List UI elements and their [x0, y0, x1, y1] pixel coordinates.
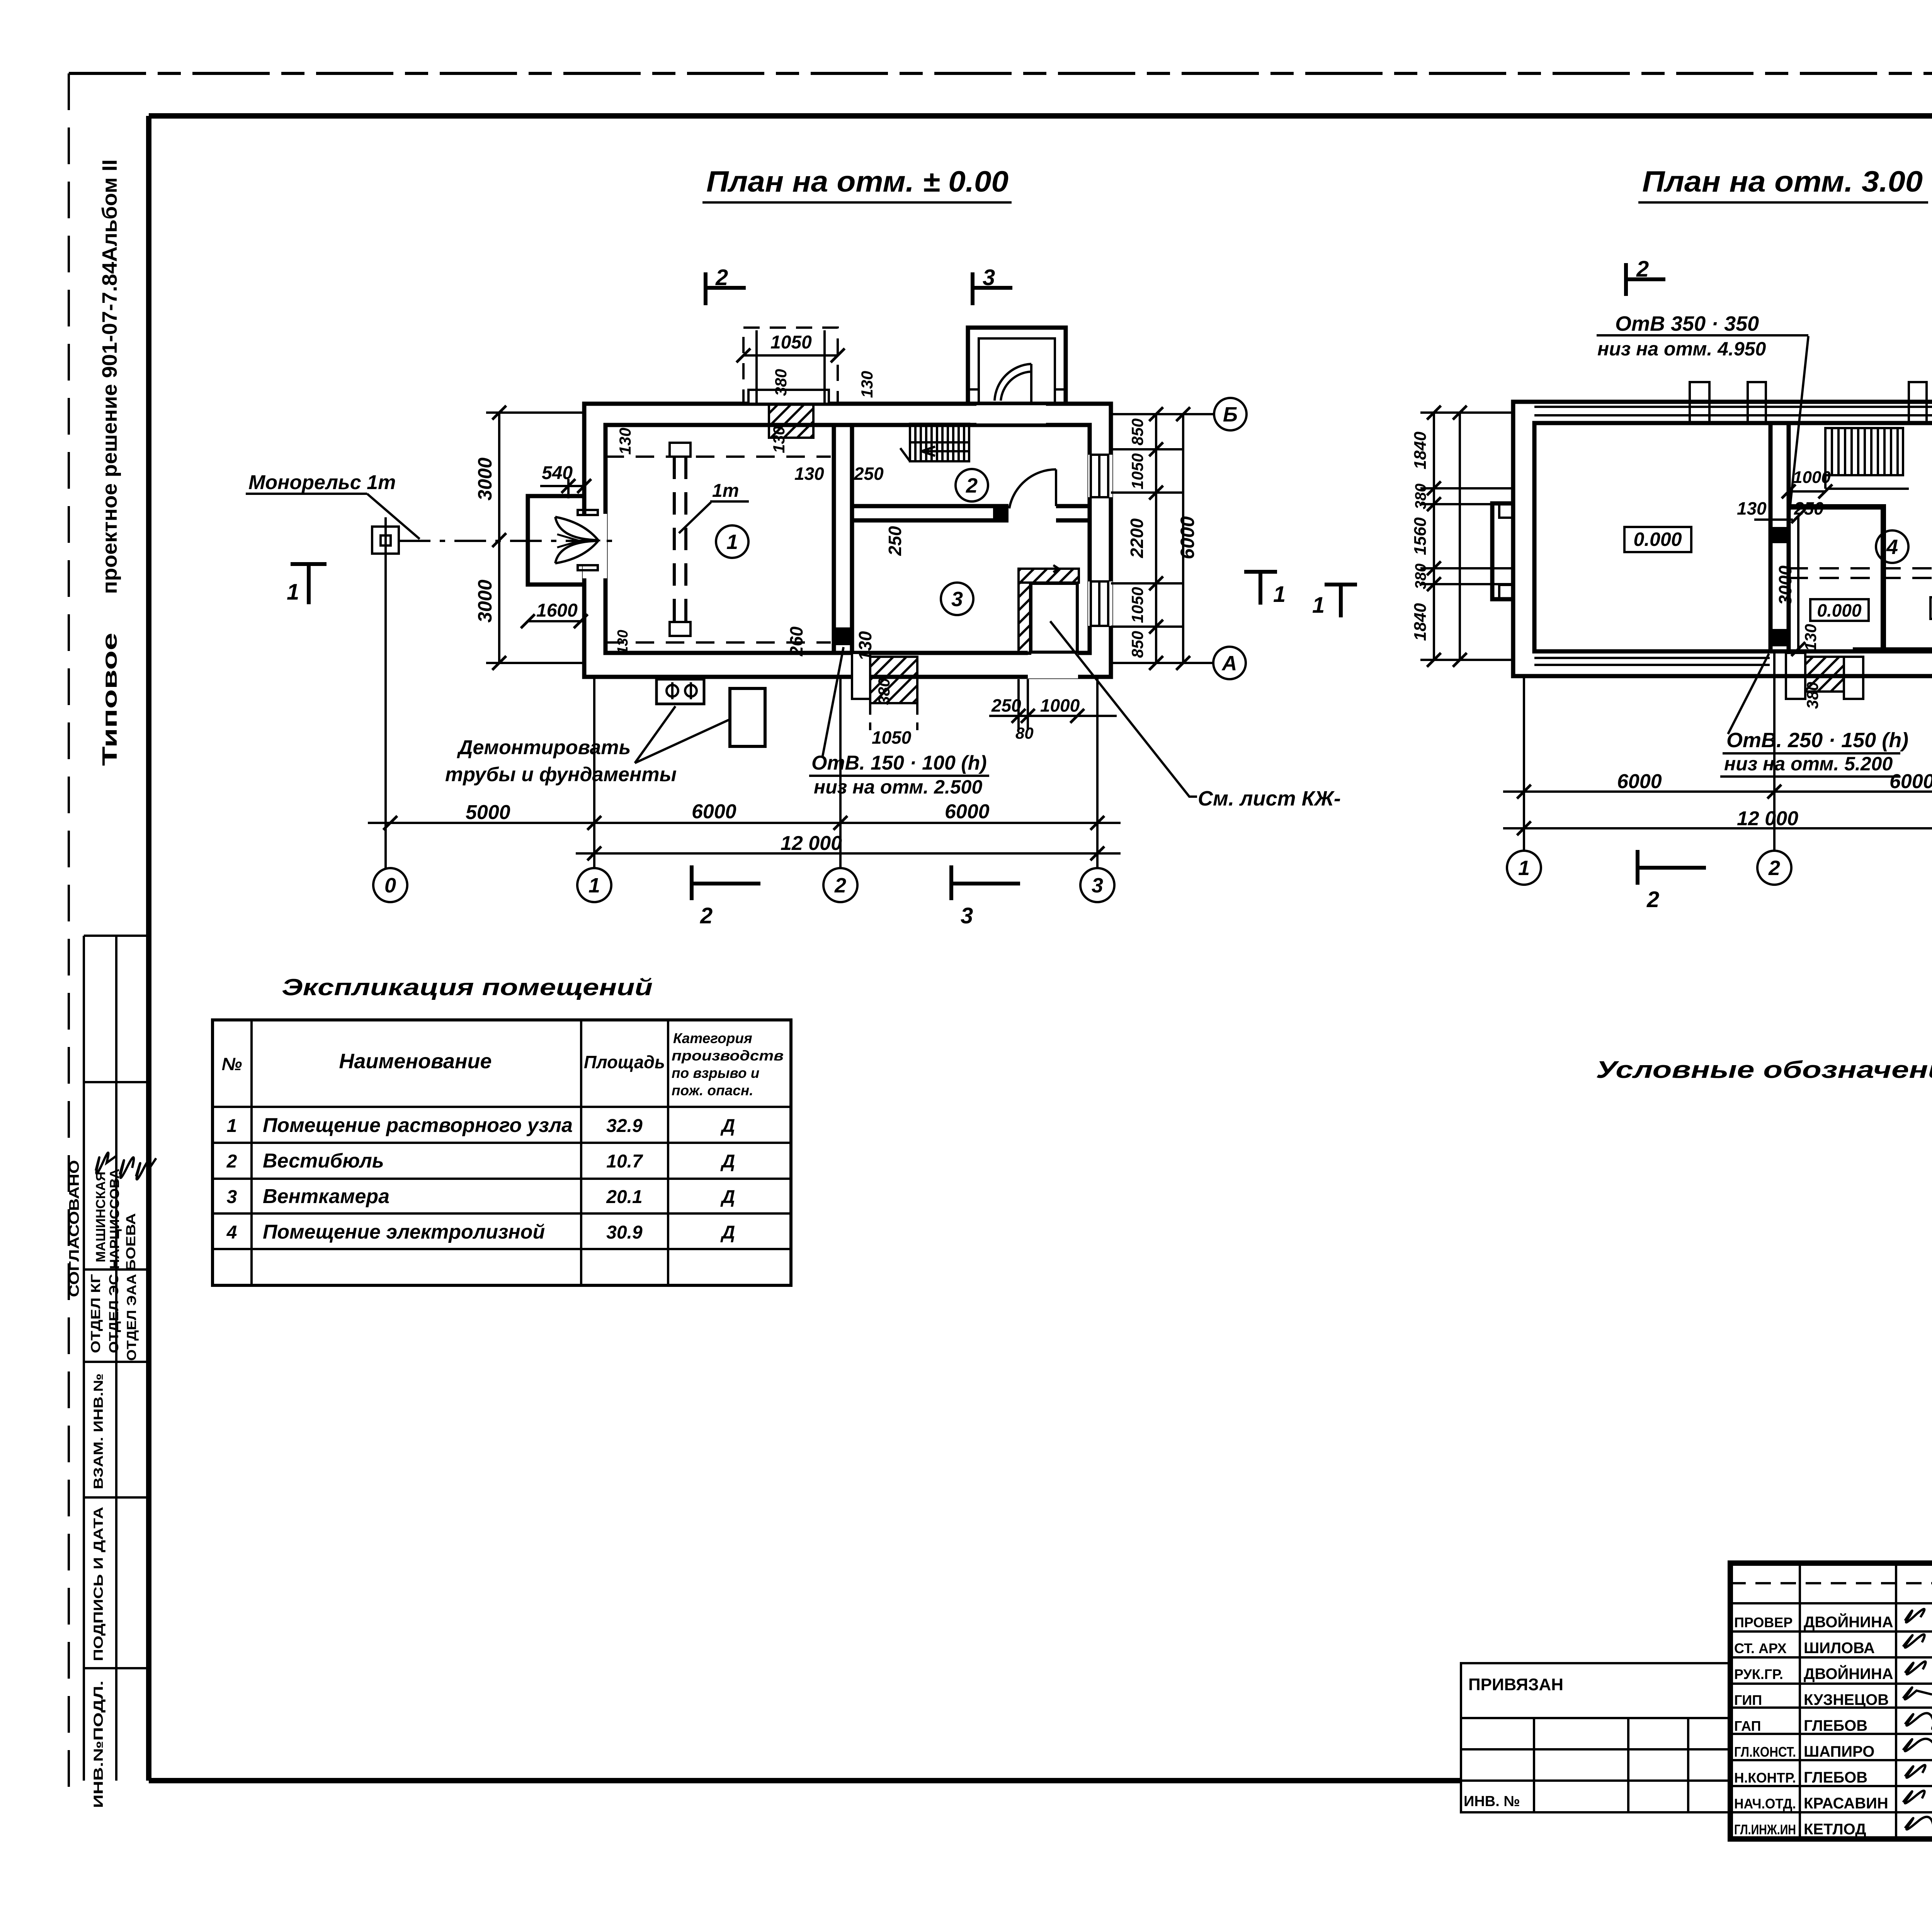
svg-text:380: 380: [772, 369, 790, 396]
svg-text:проектное решение 901-07-7.84: проектное решение 901-07-7.84Альбом II: [98, 160, 121, 594]
svg-text:Д: Д: [720, 1116, 735, 1136]
svg-text:Вестибюль: Вестибюль: [263, 1150, 384, 1172]
svg-text:1050: 1050: [1128, 587, 1146, 623]
svg-text:30.9: 30.9: [606, 1222, 643, 1243]
svg-text:130: 130: [858, 371, 876, 398]
svg-text:Монорельс 1т: Монорельс 1т: [248, 471, 396, 494]
svg-text:4: 4: [1886, 535, 1898, 559]
svg-text:0.000: 0.000: [1633, 529, 1682, 550]
svg-text:130: 130: [1801, 624, 1820, 651]
svg-text:ПОДПИСЬ И ДАТА: ПОДПИСЬ И ДАТА: [91, 1507, 106, 1661]
svg-text:20.1: 20.1: [606, 1187, 642, 1207]
svg-text:РУК.ГР.: РУК.ГР.: [1734, 1666, 1783, 1682]
svg-text:Категория: Категория: [673, 1030, 752, 1046]
svg-text:250: 250: [991, 695, 1021, 715]
svg-text:Площадь: Площадь: [584, 1052, 665, 1072]
svg-text:Условные обозначения см. ли: Условные обозначения см. лист АР-1: [1596, 1057, 1932, 1083]
svg-text:ВЗАМ. ИНВ.№: ВЗАМ. ИНВ.№: [91, 1373, 106, 1489]
svg-text:по взрыво и: по взрыво и: [672, 1065, 759, 1081]
svg-text:380: 380: [1412, 484, 1429, 510]
svg-text:6000: 6000: [1177, 516, 1198, 559]
svg-text:0.000: 0.000: [1817, 600, 1862, 620]
svg-text:ОтВ. 250 · 150 (h): ОтВ. 250 · 150 (h): [1726, 729, 1908, 752]
svg-text:380: 380: [875, 678, 893, 705]
svg-text:6000: 6000: [1617, 770, 1662, 793]
svg-text:ДВОЙНИНА: ДВОЙНИНА: [1804, 1665, 1893, 1682]
svg-text:См. лист КЖ-: См. лист КЖ-: [1198, 787, 1341, 810]
svg-text:Демонтировать: Демонтировать: [457, 736, 631, 759]
svg-text:32.9: 32.9: [606, 1116, 643, 1136]
svg-text:6000: 6000: [1889, 770, 1932, 793]
svg-text:ИНВ. №: ИНВ. №: [1464, 1793, 1520, 1810]
svg-text:2: 2: [1768, 857, 1780, 880]
svg-text:План на отм. ± 0.00: План на отм. ± 0.00: [706, 165, 1009, 198]
svg-text:540: 540: [542, 463, 573, 483]
svg-text:0: 0: [384, 874, 396, 897]
svg-text:ПРОВЕР: ПРОВЕР: [1734, 1614, 1793, 1630]
svg-text:Помещение растворного узла: Помещение растворного узла: [263, 1114, 573, 1137]
svg-text:1т: 1т: [712, 481, 739, 501]
svg-text:Д: Д: [720, 1222, 735, 1243]
svg-text:1: 1: [287, 580, 299, 605]
svg-text:низ на отм. 5.200: низ на отм. 5.200: [1724, 753, 1893, 775]
svg-text:Д: Д: [720, 1151, 735, 1172]
svg-text:3000: 3000: [474, 580, 496, 622]
svg-text:1: 1: [588, 874, 600, 897]
svg-text:1: 1: [1273, 582, 1286, 607]
svg-text:ШИЛОВА: ШИЛОВА: [1804, 1640, 1875, 1657]
svg-text:1600: 1600: [536, 600, 578, 621]
svg-text:1050: 1050: [770, 332, 812, 353]
svg-text:2: 2: [834, 874, 846, 897]
svg-text:12 000: 12 000: [781, 832, 842, 855]
svg-text:ДВОЙНИНА: ДВОЙНИНА: [1804, 1613, 1893, 1631]
svg-text:ИНВ.№ПОДЛ.: ИНВ.№ПОДЛ.: [91, 1681, 106, 1808]
svg-text:1: 1: [1518, 857, 1530, 880]
svg-text:3000: 3000: [1775, 565, 1795, 605]
svg-text:ГЛЕБОВ: ГЛЕБОВ: [1804, 1717, 1867, 1734]
svg-text:1050: 1050: [1128, 453, 1146, 489]
svg-text:ОТДЕЛ ЭАА: ОТДЕЛ ЭАА: [124, 1274, 139, 1361]
svg-text:2: 2: [966, 474, 978, 497]
svg-text:5000: 5000: [466, 801, 510, 824]
svg-text:1000: 1000: [1040, 695, 1080, 715]
svg-text:130: 130: [615, 630, 631, 654]
svg-text:ГЛЕБОВ: ГЛЕБОВ: [1804, 1769, 1867, 1786]
svg-text:2: 2: [715, 265, 728, 290]
svg-text:КУЗНЕЦОВ: КУЗНЕЦОВ: [1804, 1691, 1889, 1708]
svg-text:Венткамера: Венткамера: [263, 1185, 389, 1208]
svg-text:Типовое: Типовое: [98, 633, 121, 766]
svg-text:3: 3: [227, 1187, 237, 1207]
svg-text:2200: 2200: [1127, 518, 1147, 558]
svg-text:Экспликация помещений: Экспликация помещений: [282, 974, 653, 1000]
svg-text:260: 260: [786, 626, 806, 656]
svg-text:низ на отм. 4.950: низ на отм. 4.950: [1597, 338, 1766, 360]
svg-text:4: 4: [226, 1222, 237, 1243]
svg-text:МАШИНСКАЯ: МАШИНСКАЯ: [94, 1172, 108, 1263]
svg-text:ПРИВЯЗАН: ПРИВЯЗАН: [1468, 1675, 1563, 1694]
svg-text:1560: 1560: [1411, 517, 1430, 555]
svg-text:НАРЦИССОВА: НАРЦИССОВА: [107, 1169, 122, 1269]
svg-text:1840: 1840: [1411, 432, 1430, 469]
svg-text:ОТДЕЛ КГ: ОТДЕЛ КГ: [88, 1274, 103, 1353]
svg-text:А: А: [1221, 652, 1237, 675]
svg-text:ГИП: ГИП: [1734, 1692, 1762, 1708]
svg-text:Б: Б: [1223, 403, 1238, 426]
svg-text:250: 250: [1794, 498, 1824, 518]
svg-text:ГАП: ГАП: [1734, 1718, 1761, 1734]
svg-text:130: 130: [770, 426, 788, 453]
svg-text:3: 3: [1092, 874, 1103, 897]
svg-text:130: 130: [855, 631, 875, 661]
svg-text:1000: 1000: [1793, 468, 1831, 487]
svg-text:2: 2: [1636, 257, 1649, 282]
svg-text:НАЧ.ОТД.: НАЧ.ОТД.: [1734, 1796, 1796, 1812]
svg-text:3: 3: [961, 903, 973, 928]
svg-text:1: 1: [1312, 593, 1325, 618]
svg-text:1050: 1050: [872, 727, 912, 748]
svg-text:80: 80: [1015, 724, 1034, 742]
svg-text:2: 2: [1646, 887, 1659, 912]
svg-text:130: 130: [1737, 498, 1767, 518]
svg-text:ГЛ.ИНЖ.ИН: ГЛ.ИНЖ.ИН: [1734, 1822, 1796, 1837]
svg-text:380: 380: [1803, 682, 1821, 709]
svg-text:низ на отм. 2.500: низ на отм. 2.500: [814, 776, 982, 798]
svg-text:ОтВ. 150 · 100 (h): ОтВ. 150 · 100 (h): [811, 752, 987, 774]
svg-text:12 000: 12 000: [1737, 807, 1798, 830]
svg-text:пож. опасн.: пож. опасн.: [672, 1083, 753, 1098]
svg-text:1840: 1840: [1411, 603, 1430, 641]
svg-text:КЕТЛОД: КЕТЛОД: [1804, 1821, 1866, 1838]
svg-text:ОтВ 350 · 350: ОтВ 350 · 350: [1615, 312, 1759, 335]
svg-text:ГЛ.КОНСТ.: ГЛ.КОНСТ.: [1734, 1744, 1796, 1760]
svg-text:1: 1: [227, 1116, 237, 1136]
svg-text:Д: Д: [720, 1187, 735, 1207]
svg-text:КРАСАВИН: КРАСАВИН: [1804, 1795, 1888, 1812]
svg-text:6000: 6000: [945, 800, 990, 823]
svg-text:250: 250: [885, 526, 905, 556]
svg-text:130: 130: [616, 428, 634, 455]
svg-text:ОТДЕЛ ЭС: ОТДЕЛ ЭС: [107, 1274, 121, 1353]
svg-text:2: 2: [700, 903, 713, 928]
svg-text:850: 850: [1128, 418, 1146, 445]
svg-text:130: 130: [794, 464, 824, 484]
svg-text:Наименование: Наименование: [339, 1050, 492, 1073]
svg-text:3000: 3000: [474, 457, 496, 500]
svg-text:2: 2: [226, 1151, 237, 1172]
svg-text:План на отм. 3.00: План на отм. 3.00: [1642, 165, 1923, 198]
svg-text:6000: 6000: [692, 800, 736, 823]
svg-text:трубы и фундаменты: трубы и фундаменты: [445, 763, 677, 786]
svg-text:СОГЛАСОВАНО: СОГЛАСОВАНО: [66, 1160, 82, 1297]
svg-text:ШАПИРО: ШАПИРО: [1804, 1743, 1874, 1760]
svg-text:3: 3: [983, 265, 995, 290]
svg-text:производств: производств: [672, 1048, 784, 1064]
svg-text:1: 1: [726, 530, 738, 554]
svg-text:850: 850: [1128, 631, 1146, 658]
svg-text:3: 3: [951, 588, 963, 611]
svg-text:СТ. АРХ: СТ. АРХ: [1734, 1640, 1787, 1656]
svg-text:Помещение электролизной: Помещение электролизной: [263, 1221, 545, 1243]
svg-text:380: 380: [1412, 564, 1429, 590]
svg-text:10.7: 10.7: [606, 1151, 643, 1172]
svg-text:№: №: [222, 1054, 242, 1074]
svg-text:БОЕВА: БОЕВА: [124, 1213, 138, 1271]
svg-text:Н.КОНТР.: Н.КОНТР.: [1734, 1770, 1796, 1786]
svg-text:250: 250: [854, 464, 884, 484]
